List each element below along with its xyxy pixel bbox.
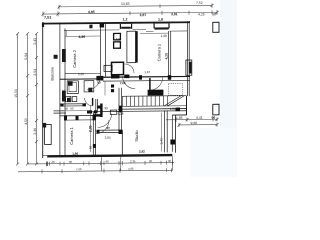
window right wall (186, 60, 192, 75)
svg-text:1,01: 1,01 (170, 107, 176, 111)
interior vertical dim camera1b (89, 105, 91, 152)
svg-text:7,66: 7,66 (76, 167, 82, 171)
svg-text:4,20: 4,20 (164, 53, 168, 59)
bottom right outer wall (174, 115, 176, 153)
right wall outer (188, 21, 190, 96)
svg-text:4,25: 4,25 (198, 12, 205, 16)
svg-text:90: 90 (97, 80, 101, 84)
right step wall (186, 96, 188, 115)
dashed void above stairs (168, 84, 182, 96)
svg-text:40: 40 (65, 107, 69, 111)
bathroom wc (72, 97, 77, 102)
bottom right dim line 2 (179, 124, 217, 126)
lower-left external blob (42, 123, 46, 128)
svg-text:3,87: 3,87 (140, 13, 147, 17)
svg-text:90: 90 (105, 106, 109, 110)
svg-text:3,43: 3,43 (159, 138, 163, 144)
door arcs (85, 64, 163, 134)
svg-text:2,05: 2,05 (105, 136, 111, 140)
bathroom shower dark corner (68, 81, 73, 85)
window pier 2 (62, 91, 66, 102)
studio wall junction blob (176, 108, 181, 112)
svg-text:2,35: 2,35 (130, 159, 136, 163)
junction divider top (100, 23, 105, 28)
svg-text:Studio: Studio (134, 130, 139, 142)
camera2 interior dim line (65, 30, 101, 36)
rooms top wall dark chunk (93, 114, 101, 116)
hall wall blob 2 (124, 75, 129, 79)
balcony corner thick (42, 22, 44, 27)
closet corner blob (119, 130, 123, 134)
wall below hall (95, 99, 97, 112)
svg-text:40: 40 (88, 109, 92, 113)
left dim line 2 (27, 34, 29, 164)
stairs hall left wall (118, 88, 120, 131)
svg-text:4,85: 4,85 (88, 10, 95, 14)
svg-text:2,92: 2,92 (139, 149, 145, 153)
svg-text:90: 90 (88, 145, 92, 149)
svg-text:2,20: 2,20 (78, 72, 84, 76)
wardrobe camera1 (127, 31, 136, 63)
svg-text:4,41: 4,41 (196, 116, 203, 120)
left main wall outer (59, 22, 61, 157)
corridor small rect (110, 110, 117, 114)
bathroom shower (67, 81, 78, 94)
svg-text:4,96: 4,96 (128, 167, 134, 171)
bathroom fixture dark blob (88, 88, 92, 92)
dimension line A top (59, 5, 212, 6)
door camera2 to hall (87, 76, 101, 90)
blob wall below hall (97, 105, 101, 108)
svg-text:Camera 2: Camera 2 (72, 49, 77, 67)
svg-text:4,85: 4,85 (79, 35, 86, 39)
junction divider bottom (96, 76, 103, 81)
svg-text:7,51: 7,51 (44, 16, 51, 20)
svg-text:4,50: 4,50 (24, 118, 28, 125)
svg-text:2,36: 2,36 (33, 128, 37, 135)
stairs bottom left blob (119, 106, 122, 113)
svg-text:7,52: 7,52 (196, 1, 203, 5)
svg-text:1,85: 1,85 (176, 116, 183, 120)
door camera1b (96, 120, 109, 134)
svg-text:2,35: 2,35 (89, 125, 93, 132)
room labels (51, 43, 162, 145)
top wall (42, 22, 190, 23)
lower-left external rect (45, 124, 52, 144)
svg-text:5,94: 5,94 (24, 53, 28, 60)
window blocks left wall (42, 49, 65, 128)
bottom dim line 1 (28, 163, 174, 164)
door bath bottom (85, 98, 93, 106)
bathroom fixture box (84, 81, 94, 92)
svg-text:90: 90 (69, 160, 73, 164)
svg-text:40: 40 (52, 160, 56, 164)
closet bottom wall (97, 129, 122, 131)
camera2 bottom face (65, 72, 100, 74)
studio top wall (118, 108, 187, 111)
tiny dimension texts in plan (65, 36, 176, 155)
svg-text:1,96: 1,96 (72, 152, 78, 156)
svg-text:1,2: 1,2 (123, 18, 128, 22)
svg-text:15,03: 15,03 (14, 89, 18, 98)
pillar bottom right (213, 104, 219, 115)
corridor wall blob (94, 110, 97, 113)
door closet to camera1 (125, 64, 134, 73)
svg-text:1,26: 1,26 (118, 112, 124, 116)
svg-text:Camera 1: Camera 1 (69, 126, 74, 144)
faint scan tint right edge (220, 0, 237, 177)
balcony door mark (54, 55, 58, 59)
svg-text:9,66: 9,66 (191, 121, 198, 125)
shaft blob bottom right (170, 139, 175, 144)
svg-text:1,40: 1,40 (161, 34, 167, 38)
nightstand camera2 (104, 65, 112, 71)
camera1b right wall blob (93, 144, 96, 148)
stairs (122, 96, 186, 107)
door hall arc mid (123, 76, 136, 89)
svg-text:96: 96 (168, 159, 172, 163)
dimension line B top (43, 12, 217, 14)
balcony bottom (54, 110, 65, 112)
window top wall camera1 (154, 23, 169, 30)
landing dark rect above stairs (148, 90, 164, 96)
wall junction blobs (61, 22, 181, 148)
camera1 right wall (167, 31, 169, 78)
left dim line 1 (17, 34, 19, 164)
door leaf right bath (149, 78, 151, 90)
camera1b right wall (92, 112, 94, 155)
interior vertical dim studio (160, 112, 162, 151)
furniture small rect 1 camera2 (114, 33, 121, 39)
svg-text:96: 96 (212, 116, 216, 120)
closet wall end blob (97, 130, 100, 133)
camera1 interior dim line (140, 32, 168, 34)
inner face of top wall (64, 29, 187, 32)
window top wall camera2 (120, 23, 132, 29)
svg-text:Balcone: Balcone (51, 67, 55, 80)
window pier 1 (62, 49, 66, 62)
svg-text:1,8: 1,8 (158, 18, 163, 22)
door hall to bath right (150, 77, 163, 90)
door jamb blobs center (111, 84, 114, 87)
bathroom sink (66, 96, 71, 101)
bottom dim line 2 (18, 170, 172, 171)
stair break diagonals (164, 96, 181, 106)
bottom rooms top wall left (60, 115, 96, 117)
svg-text:Camera 1: Camera 1 (156, 43, 161, 61)
studio right wall (164, 110, 166, 152)
hall wall blob right (168, 75, 171, 80)
bathroom wall blobs (61, 104, 64, 107)
left main wall inner (64, 28, 66, 155)
svg-text:3,05: 3,05 (116, 37, 122, 41)
furniture small rect 2 camera2 (114, 42, 121, 48)
bottom rooms wall extra blob (76, 115, 79, 120)
divider camera2 / camera1 (99, 24, 101, 77)
bathroom wc dark (67, 98, 70, 102)
corridor dark chunk (87, 110, 92, 113)
svg-text:1,97: 1,97 (144, 70, 150, 74)
svg-text:3,81: 3,81 (171, 12, 178, 16)
stairs outline (122, 96, 186, 107)
stair treads (126, 96, 128, 106)
dark mark on top wall left (89, 25, 92, 29)
hall top wall line2 (103, 79, 190, 82)
svg-text:2,43: 2,43 (33, 38, 37, 45)
bottom right dim line 1 (166, 118, 217, 120)
wardrobe dark edge (136, 31, 138, 63)
left dim line 3 (36, 34, 38, 164)
svg-text:13,65: 13,65 (121, 2, 130, 6)
svg-text:7,06: 7,06 (120, 81, 126, 85)
hall lower wall dark bar (100, 103, 102, 117)
balcony outer edge (42, 22, 44, 158)
bathroom bottom wall (60, 103, 86, 105)
right wall inner (186, 21, 188, 96)
door closet vestibule (98, 113, 112, 127)
bottom wall (47, 155, 172, 156)
svg-text:90: 90 (149, 159, 153, 163)
bottom rooms wall blobs (64, 115, 67, 120)
svg-text:90: 90 (107, 126, 111, 130)
hall top wall line1 (103, 75, 190, 78)
svg-text:96: 96 (106, 160, 110, 164)
svg-text:2,54: 2,54 (33, 69, 37, 76)
svg-text:90: 90 (70, 107, 74, 111)
corridor threshold line (54, 110, 91, 112)
bottom dim labels (52, 159, 172, 172)
svg-text:90: 90 (212, 12, 216, 16)
hall wall blob 1 (111, 75, 120, 78)
pillar top right (213, 22, 219, 32)
door jamb line hall (104, 81, 106, 96)
hall wall blob 3 (139, 75, 142, 79)
door leaf bathroom (92, 98, 94, 106)
closet between camera2 and camera1 (112, 62, 124, 75)
studio left wall lower (121, 132, 123, 155)
